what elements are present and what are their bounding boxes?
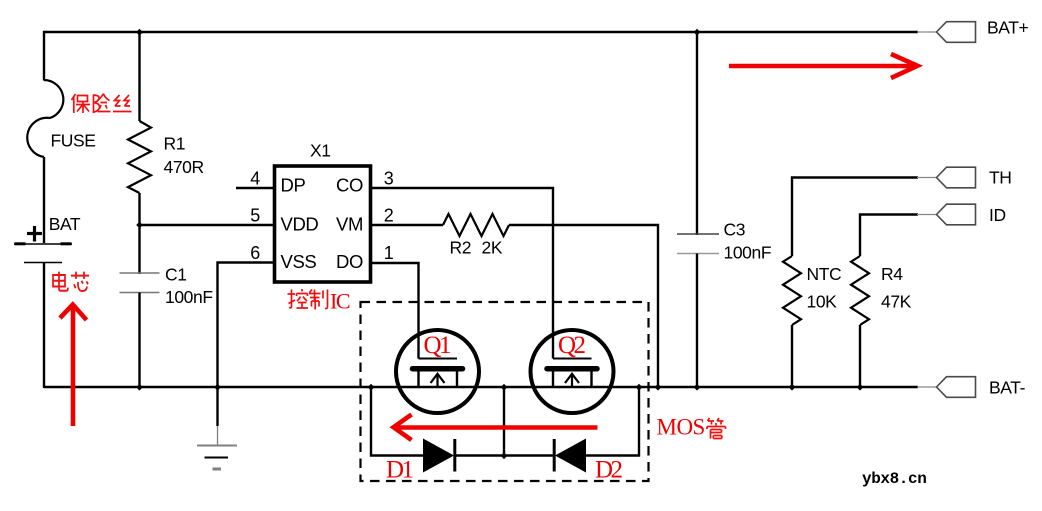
wire R4 bottom xyxy=(859,325,861,387)
wire battery column upper xyxy=(43,31,45,81)
svg-text:BAT+: BAT+ xyxy=(987,18,1029,38)
svg-text:BAT: BAT xyxy=(49,214,81,234)
capacitor C3 plates xyxy=(677,233,719,235)
battery BAT bottom plate xyxy=(24,262,62,264)
wire NTC top to TH xyxy=(792,178,918,257)
resistor R2 zigzag xyxy=(443,214,509,236)
svg-text:470R: 470R xyxy=(164,157,204,177)
wire bottom rail gray stub to BAT- connector xyxy=(917,386,937,388)
wire ground drop xyxy=(216,387,218,426)
red arrow battery cell xyxy=(60,305,87,427)
red arrow discharge direction MOS xyxy=(394,415,598,441)
wire C3 top xyxy=(696,32,698,235)
svg-text:DO: DO xyxy=(336,251,363,272)
wire D1 cathode to mid node xyxy=(455,454,555,456)
red arrow charge direction top xyxy=(729,54,918,78)
svg-text:100nF: 100nF xyxy=(724,243,772,263)
wire D2 anode to right drop xyxy=(586,387,639,456)
svg-text:ybx8.cn: ybx8.cn xyxy=(862,470,926,488)
svg-text:6: 6 xyxy=(250,243,260,263)
connector BAT- flag xyxy=(937,377,976,398)
svg-text:NTC: NTC xyxy=(807,264,842,284)
wire top rail BAT+ xyxy=(44,31,918,33)
wire IC pin1 DO to Q1 gate xyxy=(371,263,419,359)
svg-text:100nF: 100nF xyxy=(165,287,213,307)
transistor Q2 xyxy=(531,330,614,413)
dashed box MOS pack xyxy=(361,302,649,481)
resistor R4 zigzag xyxy=(851,256,869,325)
wire bottom rail BAT- xyxy=(44,386,918,388)
wire IC pin4 stub DP xyxy=(236,187,274,189)
wire battery to bottom rail xyxy=(43,263,45,389)
svg-text:Q1: Q1 xyxy=(424,332,451,359)
wire top rail gray stub to BAT+ connector xyxy=(917,31,937,33)
wire C3 bottom xyxy=(696,254,698,388)
battery BAT top plate xyxy=(14,243,72,245)
thermistor NTC zigzag xyxy=(783,256,801,325)
diode D1 xyxy=(423,439,454,473)
transistor Q1 xyxy=(396,330,479,413)
svg-text:R4: R4 xyxy=(881,264,903,284)
wire NTC bottom xyxy=(791,325,793,387)
wire IC pin3 CO to Q2 gate xyxy=(371,188,553,359)
fuse F1 xyxy=(27,80,63,157)
svg-text:C1: C1 xyxy=(165,265,187,285)
wire fuse to battery xyxy=(43,157,45,243)
hanzi BAO of baoxiansi xyxy=(72,94,91,113)
svg-text:TH: TH xyxy=(989,168,1012,188)
hanzi DIAN of dianxin xyxy=(53,272,68,291)
svg-text:MOS: MOS xyxy=(657,415,705,440)
svg-text:VM: VM xyxy=(336,213,363,234)
hanzi KONG of kongzhi xyxy=(288,289,309,308)
wire diode branch left drop xyxy=(371,387,423,456)
svg-text:47K: 47K xyxy=(881,292,912,312)
svg-text:VDD: VDD xyxy=(281,213,319,234)
wire R1 bottom to VDD node xyxy=(138,193,140,225)
wire VSS pin6 to ground column xyxy=(218,263,275,388)
svg-text:10K: 10K xyxy=(807,292,838,312)
hanzi GUAN of MOSguan xyxy=(707,418,726,439)
hanzi SI of baoxiansi xyxy=(113,95,132,112)
wire IC pin2 VM to R2 xyxy=(371,224,443,226)
svg-text:BAT-: BAT- xyxy=(989,378,1026,398)
svg-text:FUSE: FUSE xyxy=(51,131,96,151)
hanzi ZHI of kongzhi xyxy=(309,290,328,310)
hanzi XIN of dianxin xyxy=(71,272,89,292)
svg-text:CO: CO xyxy=(336,175,363,196)
wire C1 bottom xyxy=(138,293,140,388)
svg-text:1: 1 xyxy=(384,243,394,263)
svg-text:C3: C3 xyxy=(724,220,746,240)
battery BAT plus sign xyxy=(27,226,42,242)
svg-text:ID: ID xyxy=(989,205,1006,225)
svg-text:IC: IC xyxy=(330,289,350,314)
svg-text:D1: D1 xyxy=(386,457,413,484)
svg-text:Q2: Q2 xyxy=(558,332,586,359)
connector BAT+ flag xyxy=(937,22,976,43)
svg-text:4: 4 xyxy=(250,168,260,188)
wire R2 to BAT- node xyxy=(509,225,658,387)
wire mid node vertical xyxy=(503,387,505,456)
IC X1 body xyxy=(275,166,371,282)
resistor R1 zigzag xyxy=(128,121,151,193)
connector TH flag xyxy=(937,167,976,188)
svg-text:R1: R1 xyxy=(164,134,186,154)
svg-text:3: 3 xyxy=(384,168,394,188)
wire R1 top xyxy=(138,32,140,121)
svg-text:2: 2 xyxy=(384,206,394,226)
svg-text:5: 5 xyxy=(250,206,260,226)
svg-text:2K: 2K xyxy=(482,238,503,258)
ground xyxy=(197,446,237,470)
diode D2 xyxy=(555,439,586,473)
svg-text:X1: X1 xyxy=(310,141,331,161)
wire C1 top xyxy=(138,225,140,274)
hanzi XIAN of baoxiansi xyxy=(94,94,111,114)
wire R4 top to ID xyxy=(860,215,918,257)
svg-text:R2: R2 xyxy=(450,238,472,258)
svg-text:DP: DP xyxy=(281,175,306,196)
capacitor C1 plates xyxy=(120,272,160,274)
svg-text:D2: D2 xyxy=(595,457,623,484)
wire VDD rail to IC pin5 xyxy=(140,224,275,226)
svg-text:VSS: VSS xyxy=(281,251,317,272)
connector ID flag xyxy=(937,204,976,225)
